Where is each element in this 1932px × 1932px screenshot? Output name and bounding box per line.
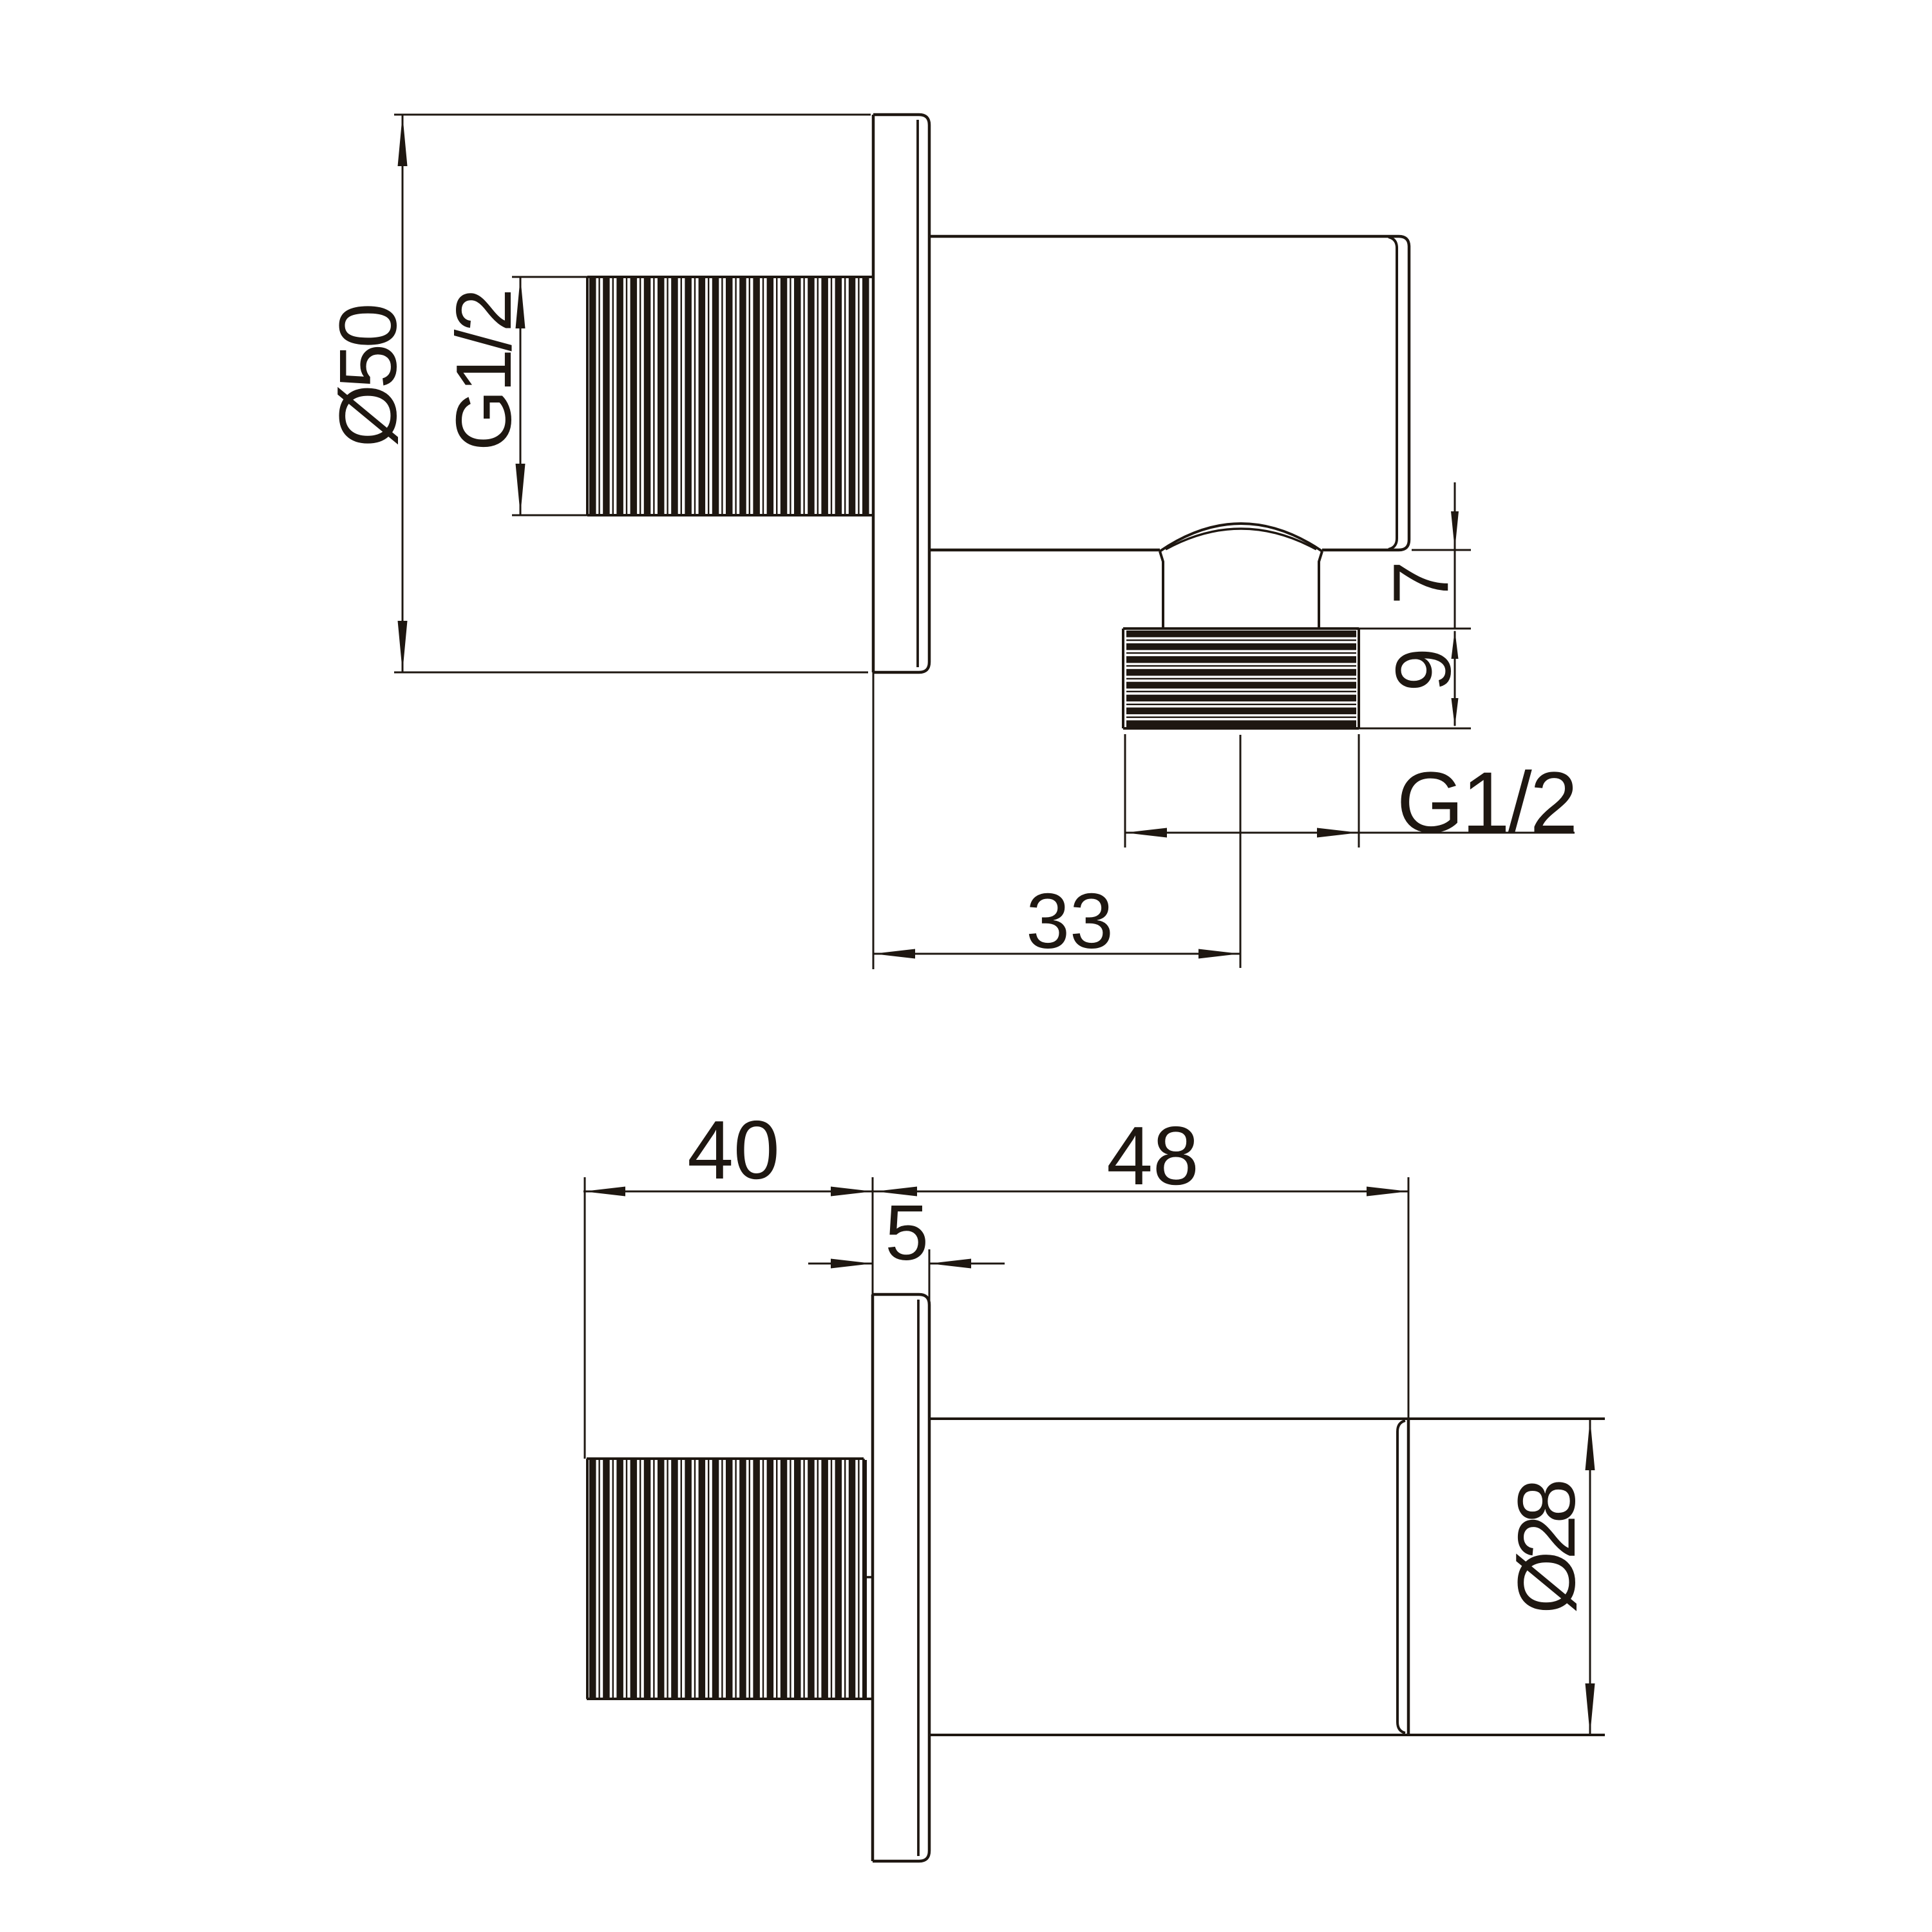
- outlet thread outline (top view): [1122, 629, 1124, 728]
- inlet thread (bottom view) stripes: [589, 1460, 596, 1698]
- dim 9 top extension: [1359, 628, 1471, 630]
- thread relief step (bottom view): [862, 1459, 865, 1577]
- dim Ø28 line + arrows: [1589, 1419, 1591, 1735]
- dim Ø50 line + arrows: [402, 115, 404, 672]
- dim G1/2 inlet extension lines: [512, 276, 587, 278]
- wall plate face line (bottom view): [917, 1300, 920, 1856]
- dim 7 extension line: [1412, 549, 1471, 551]
- cylinder right edge + 48 extension (bottom view): [1408, 1177, 1410, 1419]
- inlet thread G1/2 (top view) stripes: [589, 278, 596, 514]
- svg-text:G1/2: G1/2: [1397, 755, 1577, 851]
- wall plate (bottom view) outline: [873, 1294, 929, 1861]
- 33 extension line: [873, 672, 875, 969]
- dim 7/9 line + arrows: [1454, 482, 1456, 550]
- dim 33 line + arrows: [873, 953, 1240, 955]
- cylinder end-cap line (bottom view): [1397, 1421, 1405, 1733]
- outlet thread G1/2 (top view) stripes: [1126, 630, 1356, 638]
- dim G1/2 outlet extension lines: [1124, 734, 1126, 848]
- svg-text:33: 33: [1026, 877, 1113, 965]
- dim 40 left extension: [584, 1177, 586, 1459]
- inlet thread outline (top view): [586, 277, 589, 515]
- outlet axis line: [1240, 735, 1242, 968]
- dim Ø50 extension lines: [394, 114, 871, 116]
- wall plate (top view) outline: [873, 115, 929, 672]
- wall plate face line (top view): [916, 120, 919, 667]
- svg-text:7: 7: [1377, 561, 1464, 605]
- svg-text:9: 9: [1379, 648, 1467, 692]
- svg-text:5: 5: [885, 1189, 929, 1276]
- wall plate (bottom view) left edge: [871, 1294, 875, 1861]
- svg-text:Ø28: Ø28: [1501, 1482, 1592, 1614]
- inlet thread outline (bottom view): [586, 1459, 589, 1699]
- svg-text:G1/2: G1/2: [440, 291, 527, 451]
- cylinder body (top view): [929, 236, 1409, 550]
- outlet neck (top view): [1160, 551, 1163, 629]
- dim G1/2 inlet line + arrows: [520, 277, 522, 515]
- cylinder body (bottom view) top edge + Ø28 top extension: [929, 1417, 1605, 1420]
- svg-text:Ø50: Ø50: [323, 306, 413, 448]
- dim G1/2 outlet line + arrows: [1125, 832, 1575, 834]
- wall plate (top view), left edge: [872, 115, 875, 672]
- dim 5 line + outside arrows: [808, 1263, 873, 1265]
- cylinder end-cap line (top view): [1388, 237, 1397, 549]
- svg-text:40: 40: [687, 1104, 780, 1197]
- dim 40 / 48 shared line: [583, 1191, 1408, 1193]
- dim 9 bottom extension: [1359, 728, 1471, 730]
- cylinder body (bottom view) bottom edge + Ø28 bottom extension: [929, 1734, 1605, 1736]
- svg-text:48: 48: [1106, 1110, 1199, 1202]
- outlet neck arch outer: [1160, 524, 1322, 551]
- outlet neck arch inner: [1166, 529, 1316, 549]
- 40/48 shared extension line: [872, 1177, 874, 1294]
- dim 5 extension: [929, 1249, 931, 1305]
